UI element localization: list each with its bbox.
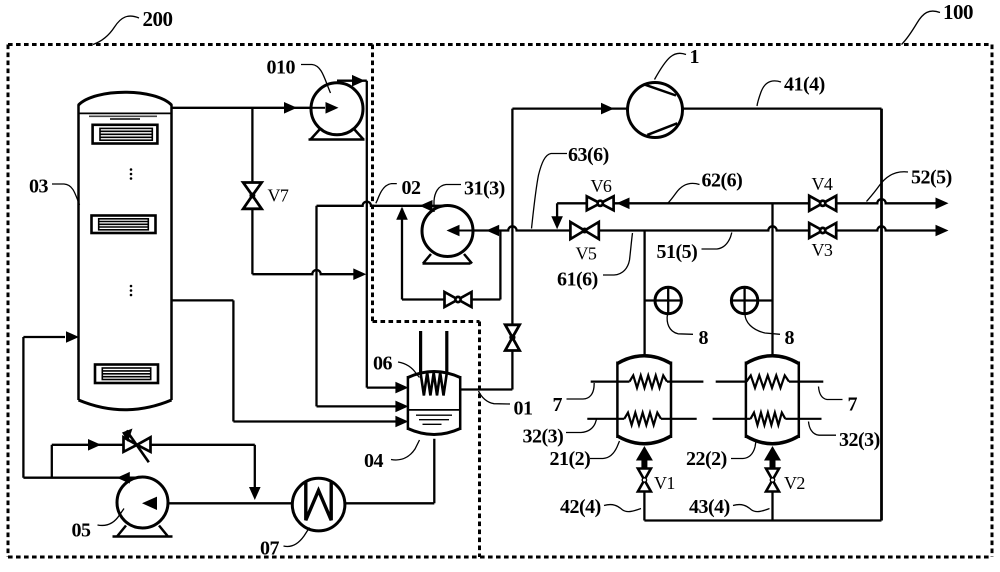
svg-text:V7: V7 — [268, 186, 289, 206]
svg-text:51(5): 51(5) — [657, 241, 698, 263]
svg-text:21(2): 21(2) — [550, 448, 591, 470]
svg-text:04: 04 — [364, 450, 384, 472]
svg-text:7: 7 — [553, 394, 563, 416]
svg-text:63(6): 63(6) — [568, 144, 609, 166]
svg-text:8: 8 — [699, 327, 709, 349]
svg-text:43(4): 43(4) — [689, 496, 730, 518]
svg-text:62(6): 62(6) — [702, 170, 743, 192]
svg-text:32(3): 32(3) — [523, 426, 564, 448]
svg-text:01: 01 — [514, 398, 533, 420]
svg-text:32(3): 32(3) — [839, 429, 880, 451]
svg-text:41(4): 41(4) — [784, 74, 825, 96]
svg-text:V4: V4 — [812, 174, 833, 194]
svg-text:22(2): 22(2) — [686, 448, 727, 470]
svg-text:V3: V3 — [812, 240, 833, 260]
svg-text:V1: V1 — [654, 473, 675, 493]
svg-text:02: 02 — [402, 177, 422, 199]
svg-text:V2: V2 — [784, 473, 805, 493]
svg-text:8: 8 — [785, 327, 795, 349]
svg-text:200: 200 — [143, 7, 173, 31]
svg-text:7: 7 — [848, 394, 858, 416]
svg-text:06: 06 — [373, 353, 393, 375]
svg-text:100: 100 — [943, 0, 973, 24]
svg-text:52(5): 52(5) — [911, 167, 952, 189]
svg-text:1: 1 — [690, 46, 700, 68]
svg-text:07: 07 — [260, 538, 280, 560]
svg-text:V6: V6 — [591, 176, 612, 196]
svg-text:05: 05 — [72, 520, 92, 542]
svg-text:42(4): 42(4) — [560, 496, 601, 518]
svg-text:61(6): 61(6) — [557, 269, 598, 291]
svg-text:V5: V5 — [576, 244, 597, 264]
svg-text:010: 010 — [267, 57, 296, 79]
svg-text:03: 03 — [29, 176, 49, 198]
svg-text:31(3): 31(3) — [464, 178, 505, 200]
